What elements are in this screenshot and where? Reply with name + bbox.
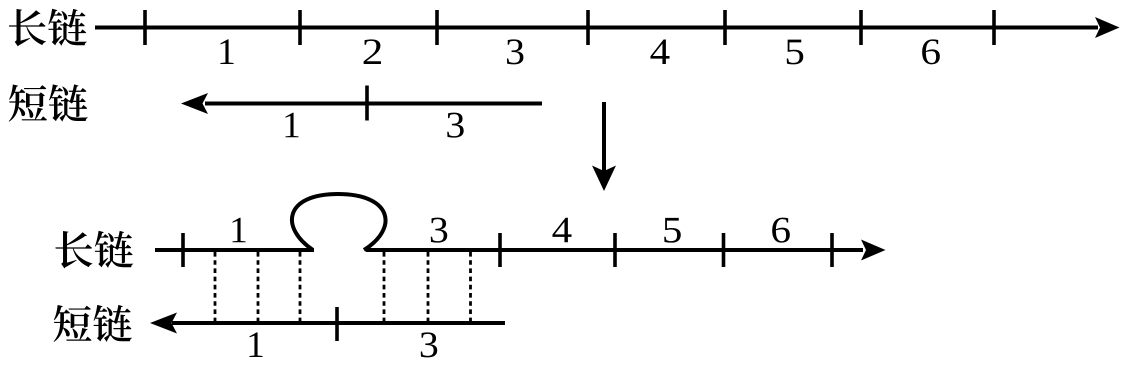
top tick 7 bbox=[992, 10, 996, 45]
hydrogen-bond dotted line 1 bbox=[214, 252, 217, 322]
top short-chain line bbox=[205, 102, 542, 106]
bottom short-chain tick bbox=[335, 307, 339, 341]
hydrogen-bond dotted line 3 bbox=[299, 252, 302, 322]
top tick 1 bbox=[143, 10, 147, 45]
bottom segment number 6 bbox=[772, 218, 790, 243]
top short-chain left arrowhead bbox=[181, 93, 208, 114]
bottom tick 5 bbox=[830, 233, 834, 267]
bottom long-chain axis line right part bbox=[366, 248, 863, 252]
bottom short-chain left arrowhead bbox=[150, 313, 177, 334]
bottom long-chain arrowhead bbox=[861, 240, 886, 261]
top tick 3 bbox=[435, 10, 439, 45]
hydrogen-bond dotted line 2 bbox=[257, 252, 260, 322]
bottom long-chain axis line left part bbox=[155, 248, 314, 252]
top tick 5 bbox=[723, 10, 727, 45]
top short-chain tick bbox=[365, 86, 369, 121]
top segment number 2 bbox=[364, 39, 381, 64]
bottom short segment number 3 bbox=[421, 332, 437, 357]
label bottom long-chain 长链 bbox=[55, 231, 133, 269]
top segment number 3 bbox=[507, 39, 523, 64]
top short segment number 1 bbox=[285, 113, 298, 138]
bottom short-chain line bbox=[172, 321, 505, 325]
top tick 6 bbox=[859, 10, 863, 45]
top segment number 5 bbox=[787, 40, 804, 65]
bottom segment number 5 bbox=[664, 218, 681, 243]
hydrogen-bond dotted line 6 bbox=[469, 252, 472, 322]
label top short-chain 短链 bbox=[9, 84, 88, 121]
top tick 2 bbox=[298, 10, 302, 45]
top long-chain arrowhead bbox=[1095, 17, 1120, 38]
top short segment number 3 bbox=[447, 113, 463, 138]
top segment number 4 bbox=[650, 39, 669, 64]
unpaired loop (segment 2 looped out) bbox=[292, 194, 386, 250]
top segment number 1 bbox=[220, 39, 233, 64]
downward transform arrow bbox=[592, 102, 616, 191]
label top long-chain 长链 bbox=[9, 9, 87, 47]
bottom tick 4 bbox=[722, 233, 726, 267]
hydrogen-bond dotted line 5 bbox=[427, 252, 430, 322]
bottom tick 2 bbox=[498, 233, 502, 267]
top tick 4 bbox=[586, 10, 590, 45]
label bottom short-chain 短链 bbox=[54, 305, 132, 342]
bottom segment number 3 bbox=[431, 218, 447, 243]
top segment number 6 bbox=[922, 39, 940, 64]
bottom segment number 1 bbox=[232, 218, 245, 243]
bottom tick 3 bbox=[613, 233, 617, 267]
bottom tick 1 bbox=[181, 233, 185, 267]
bottom short segment number 1 bbox=[249, 332, 262, 357]
top long-chain axis line bbox=[95, 26, 1098, 30]
bottom segment number 4 bbox=[552, 218, 571, 243]
hydrogen-bond dotted line 4 bbox=[383, 252, 386, 322]
